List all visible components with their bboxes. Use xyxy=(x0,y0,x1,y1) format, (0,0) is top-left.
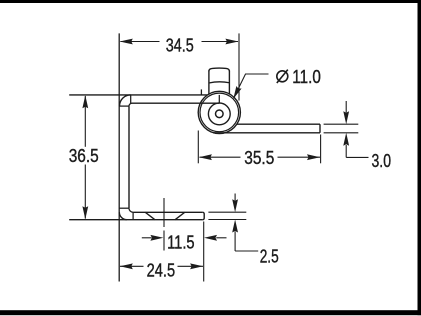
leader arrowhead xyxy=(233,86,241,99)
dashed centerline of notch xyxy=(163,198,165,251)
dim 35.5 right extension xyxy=(320,135,322,164)
bottom bend inner arc r=4.1 xyxy=(129,208,133,212)
dim 11.5 left arrow shaft xyxy=(142,237,152,239)
wire: arm bottom edge to pin tangent xyxy=(132,102,219,104)
dim 2.5 bottom extension xyxy=(208,219,246,221)
pin collar left edge stub xyxy=(200,89,202,95)
dim 24.5 line left segment xyxy=(120,265,144,267)
wire: arm top edge with 36.5 extension (y=94.9) xyxy=(69,94,207,96)
bottom bend boundary vertical tick xyxy=(132,212,134,219)
extension line right of flange end (x=203.7) xyxy=(203,222,205,282)
wire: right arm bottom edge xyxy=(213,132,320,134)
diameter symbol slash xyxy=(277,70,288,83)
svg-text:34.5: 34.5 xyxy=(166,35,194,55)
wire: 34.5 right extension line (x=239) xyxy=(238,33,240,100)
pin tangent boundary tick xyxy=(218,95,220,103)
dim 24.5 arrow right xyxy=(190,263,203,269)
dim 35.5 line right segment xyxy=(278,156,321,158)
dim 2.5 upper arrowhead xyxy=(232,199,238,212)
dim 3.0 bottom extension xyxy=(324,132,359,134)
dim 3.0 upper arrow shaft xyxy=(345,101,347,113)
dim 35.5 arrow right xyxy=(307,154,320,160)
wire: leg inner edge (x=129) xyxy=(128,106,130,208)
top bend inner arc r=3 xyxy=(129,103,132,106)
dim 2.5 top extension xyxy=(208,211,246,213)
leader for diameter callout xyxy=(234,74,269,98)
top bend boundary horizontal tick xyxy=(120,105,130,107)
top-left outer bend arc r=11.2 xyxy=(120,95,131,106)
svg-text:3.0: 3.0 xyxy=(372,151,392,171)
dim 34.5 line right segment xyxy=(202,41,239,43)
dim 3.0 lower arrowhead xyxy=(343,133,349,146)
svg-text:2.5: 2.5 xyxy=(260,247,279,267)
wire: flange top edge xyxy=(133,211,203,213)
notch right diagonal xyxy=(175,212,185,219)
bottom bend boundary horizontal tick xyxy=(120,207,130,209)
svg-text:35.5: 35.5 xyxy=(244,148,274,168)
wire: flange bottom edge with 36.5 extension xyxy=(69,219,203,221)
dim 35.5 arrow left xyxy=(199,154,212,160)
svg-text:36.5: 36.5 xyxy=(69,146,99,166)
wire: leg outer left edge merged with 34.5/24.5 extension line (x=119.2) xyxy=(118,33,120,281)
dim 35.5 line left segment xyxy=(200,156,241,158)
dim 11.5 right arrowhead (points left) xyxy=(204,235,217,241)
dim 2.5 lower arrowhead xyxy=(232,220,238,233)
dim 24.5 arrow left xyxy=(120,263,133,269)
dim 35.5 left extension xyxy=(197,131,199,164)
wire: right arm top edge xyxy=(237,123,320,125)
svg-text:24.5: 24.5 xyxy=(147,260,176,280)
dim 36.5 arrow down xyxy=(82,206,88,219)
dim 34.5 line left segment xyxy=(120,41,159,43)
notch left diagonal xyxy=(145,212,155,219)
flange right end cap xyxy=(203,212,205,219)
svg-text:11.5: 11.5 xyxy=(167,233,195,253)
dim 34.5 arrow right xyxy=(225,39,238,45)
dim 3.0 leader horizontal xyxy=(346,156,368,158)
hinge second ring xyxy=(200,93,239,132)
hinge center hole xyxy=(216,110,224,118)
dim 3.0 upper arrowhead xyxy=(343,111,349,124)
diameter symbol circle xyxy=(277,71,288,82)
dim 24.5 line right segment xyxy=(178,265,204,267)
hinge outer circle xyxy=(198,91,240,133)
svg-text:11.0: 11.0 xyxy=(292,67,321,87)
dim 3.0 lower arrow shaft xyxy=(345,145,347,157)
dim 2.5 lower arrow shaft xyxy=(234,232,236,252)
dim 36.5 line lower segment xyxy=(84,165,86,219)
pin right edge xyxy=(228,71,230,95)
right arm end cap xyxy=(319,124,321,133)
dim 2.5 upper arrow shaft xyxy=(234,194,236,201)
pin mid arc xyxy=(209,82,230,83)
dim 36.5 arrow up xyxy=(82,95,88,108)
dim 36.5 line upper segment xyxy=(84,96,86,147)
dim 3.0 top extension xyxy=(324,123,359,125)
pin left edge xyxy=(208,71,210,95)
dim 11.5 left arrowhead (points right) xyxy=(150,235,163,241)
dim 2.5 leader horizontal xyxy=(235,250,258,252)
top bend boundary vertical tick xyxy=(130,95,132,103)
dim 11.5 right arrow shaft xyxy=(216,237,226,239)
dim 34.5 arrow left xyxy=(120,39,133,45)
hinge middle circle xyxy=(208,103,230,125)
bottom-left outer bend arc r=7.6 xyxy=(119,212,127,220)
pin top edge xyxy=(209,68,230,71)
